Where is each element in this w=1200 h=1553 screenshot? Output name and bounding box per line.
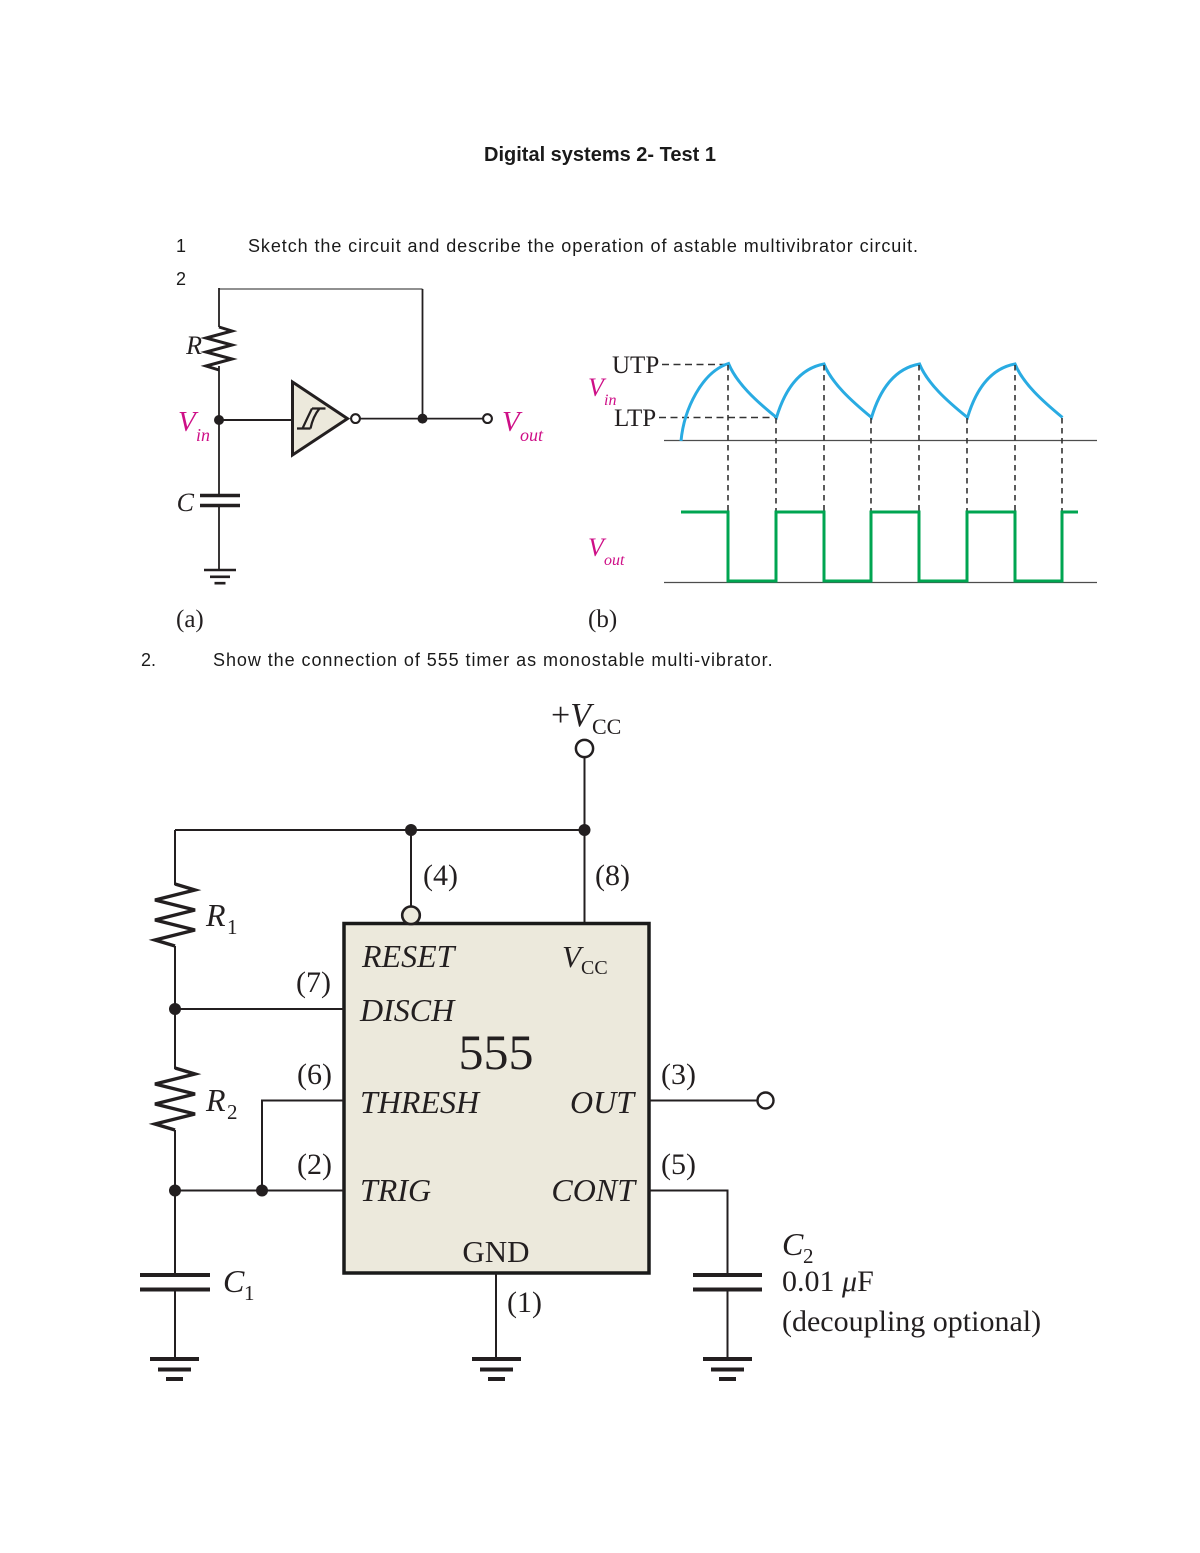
svg-text:RESET: RESET xyxy=(361,938,457,974)
dashed vertical line trough4 xyxy=(1061,418,1063,582)
label Vin xyxy=(178,406,210,445)
node disch junction dot xyxy=(169,1003,181,1015)
label Vout xyxy=(502,406,544,445)
pin4 reset open circle xyxy=(402,907,420,925)
svg-text:(7): (7) xyxy=(296,966,331,999)
svg-text:(6): (6) xyxy=(297,1058,332,1091)
wire DISCH pin7 xyxy=(175,1008,344,1010)
resistor R xyxy=(206,327,232,370)
label C2 note xyxy=(782,1305,1041,1338)
svg-text:+V: +V xyxy=(551,697,595,734)
label THRESH xyxy=(360,1084,481,1120)
svg-text:LTP: LTP xyxy=(614,405,656,432)
svg-text:R: R xyxy=(205,1082,226,1118)
node rail-pin8 dot xyxy=(579,824,591,836)
label DISCH xyxy=(359,992,456,1028)
hysteresis symbol xyxy=(297,409,326,429)
label UTP xyxy=(612,352,659,379)
capacitor C1 xyxy=(140,1275,210,1290)
svg-text:UTP: UTP xyxy=(612,352,659,379)
svg-text:C: C xyxy=(223,1263,245,1299)
label pin (5) xyxy=(661,1148,696,1181)
label R2 xyxy=(205,1082,238,1124)
node Vin dot xyxy=(214,415,224,425)
ground chip xyxy=(472,1359,521,1379)
svg-text:1: 1 xyxy=(244,1281,255,1305)
svg-text:(1): (1) xyxy=(507,1286,542,1319)
svg-text:(2): (2) xyxy=(297,1148,332,1181)
label pin (2) xyxy=(297,1148,332,1181)
wire VCC terminal down xyxy=(584,757,586,830)
wire pin4 xyxy=(410,830,412,906)
label OUT xyxy=(570,1084,636,1120)
svg-text:THRESH: THRESH xyxy=(360,1084,481,1120)
wire top-left vertical xyxy=(218,288,220,327)
title xyxy=(0,144,1200,167)
UTP dashed level line xyxy=(662,364,727,366)
label pin (4) xyxy=(423,859,458,892)
dashed vertical line peak2 xyxy=(823,365,825,582)
svg-text:R: R xyxy=(185,331,202,360)
svg-text:CONT: CONT xyxy=(551,1172,637,1208)
svg-text:2: 2 xyxy=(227,1100,238,1124)
svg-text:in: in xyxy=(604,392,616,409)
wire TRIG pin2 xyxy=(175,1190,344,1192)
node trig-left junction dot xyxy=(169,1185,181,1197)
Vout square wave xyxy=(681,512,1078,581)
wire capacitor to ground xyxy=(218,507,220,569)
label 555 xyxy=(459,1024,534,1080)
label (a) xyxy=(176,606,204,633)
svg-text:555: 555 xyxy=(459,1024,534,1080)
svg-text:CC: CC xyxy=(592,714,621,739)
wire rail to R1 xyxy=(174,830,176,885)
label C2 xyxy=(782,1226,814,1268)
resistor R1 xyxy=(155,884,195,946)
terminal +VCC open circle xyxy=(576,740,593,757)
question 1 xyxy=(176,236,186,257)
svg-text:GND: GND xyxy=(462,1234,529,1269)
wire Vin node to capacitor xyxy=(218,420,220,494)
wire OUT pin3 xyxy=(649,1100,757,1102)
label GND xyxy=(462,1234,529,1269)
Vin axis xyxy=(664,440,1097,442)
svg-text:1: 1 xyxy=(227,915,238,939)
svg-text:(a): (a) xyxy=(176,606,204,633)
label C1 xyxy=(223,1263,255,1305)
node output junction dot xyxy=(418,414,428,424)
svg-text:C: C xyxy=(782,1226,804,1262)
svg-text:out: out xyxy=(520,425,544,445)
node trig-thresh junction dot xyxy=(256,1185,268,1197)
wire C2 to ground xyxy=(727,1291,729,1357)
svg-text:(5): (5) xyxy=(661,1148,696,1181)
svg-text:R: R xyxy=(205,897,226,933)
dashed vertical line trough1 xyxy=(775,418,777,582)
svg-text:(4): (4) xyxy=(423,859,458,892)
label C xyxy=(177,488,195,517)
svg-text:OUT: OUT xyxy=(570,1084,636,1120)
label pin (3) xyxy=(661,1058,696,1091)
wire THRESH pin6 xyxy=(262,1101,344,1191)
resistor R2 xyxy=(155,1068,195,1130)
svg-text:C: C xyxy=(177,488,195,517)
wire CONT pin5 xyxy=(649,1191,728,1275)
LTP dashed level line xyxy=(659,417,775,419)
capacitor C xyxy=(200,496,240,506)
svg-text:(3): (3) xyxy=(661,1058,696,1091)
wire R1 to disch node xyxy=(174,946,176,1009)
wire pin8 xyxy=(584,830,586,923)
ground C2 xyxy=(703,1359,752,1379)
label Vin waveform xyxy=(588,373,616,409)
wire top rail xyxy=(175,829,585,831)
wire R to Vin node xyxy=(218,366,220,420)
IC 555 body xyxy=(344,924,649,1274)
ground circuit-a xyxy=(204,570,236,583)
svg-text:CC: CC xyxy=(581,957,608,979)
label Vout waveform xyxy=(588,533,625,569)
label R xyxy=(185,331,202,360)
svg-text:(decoupling optional): (decoupling optional) xyxy=(782,1305,1041,1338)
label +VCC xyxy=(551,697,621,739)
terminal Vout open circle xyxy=(483,414,492,423)
dashed vertical line peak1 xyxy=(727,365,729,582)
dashed vertical line trough3 xyxy=(966,418,968,582)
schmitt inverter U1 xyxy=(293,382,348,455)
svg-text:in: in xyxy=(196,425,210,445)
dashed vertical line trough2 xyxy=(870,418,872,582)
dashed vertical line peak3 xyxy=(918,365,920,582)
question 2 xyxy=(141,650,156,671)
Vin waveform curve xyxy=(681,364,1063,442)
svg-text:(b): (b) xyxy=(588,606,617,633)
label pin (8) xyxy=(595,859,630,892)
Vout axis xyxy=(664,582,1097,584)
terminal OUT open circle xyxy=(758,1093,774,1109)
label pin (7) xyxy=(296,966,331,999)
svg-text:0.01 μF: 0.01 μF xyxy=(782,1265,874,1298)
label (b) xyxy=(588,606,617,633)
wire GND pin1 xyxy=(495,1273,497,1357)
dashed vertical line peak4 xyxy=(1014,365,1016,582)
ground C1 xyxy=(150,1359,199,1379)
label pin (6) xyxy=(297,1058,332,1091)
wire Vin to inverter input xyxy=(219,419,292,421)
wire R2 to trig node xyxy=(174,1130,176,1191)
wire feedback top xyxy=(219,288,423,290)
svg-text:DISCH: DISCH xyxy=(359,992,456,1028)
label pin (1) xyxy=(507,1286,542,1319)
wire C1 to ground xyxy=(174,1291,176,1357)
capacitor C2 xyxy=(693,1275,762,1290)
label TRIG xyxy=(360,1172,431,1208)
label R1 xyxy=(205,897,238,939)
node rail-pin4 dot xyxy=(405,824,417,836)
svg-text:(8): (8) xyxy=(595,859,630,892)
label C2 value xyxy=(782,1265,874,1298)
wire disch node to R2 xyxy=(174,1009,176,1069)
wire feedback right vertical xyxy=(422,289,424,419)
label RESET xyxy=(361,938,457,974)
label VCC pin xyxy=(562,939,608,979)
label LTP xyxy=(614,405,656,432)
svg-text:TRIG: TRIG xyxy=(360,1172,431,1208)
wire inverter output xyxy=(361,418,483,420)
wire trig node to C1 xyxy=(174,1191,176,1274)
inverter bubble xyxy=(351,414,360,423)
svg-text:out: out xyxy=(604,552,625,569)
label CONT xyxy=(551,1172,637,1208)
